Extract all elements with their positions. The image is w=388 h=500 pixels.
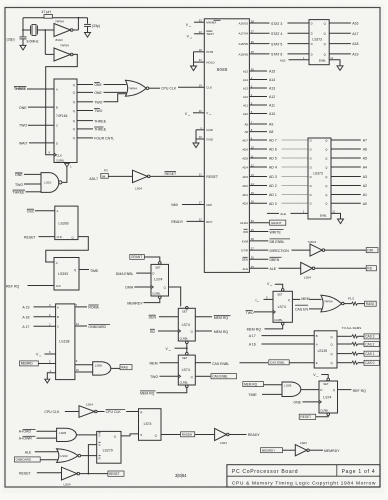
svg-text:THREE: THREE [94, 128, 107, 132]
svg-text:ADL7: ADL7 [89, 177, 98, 181]
flip-flop U12 LS74 [281, 289, 284, 292]
svg-text:AD 5: AD 5 [269, 157, 277, 161]
svg-text:CAS 1: CAS 1 [365, 352, 374, 356]
svg-text:ONE: ONE [293, 401, 301, 405]
inverter U1A 74F04 [54, 24, 71, 37]
svg-text:RASEN: RASEN [182, 433, 193, 437]
svg-text:A16: A16 [352, 22, 358, 26]
and-gate U16 LS09 [282, 382, 301, 397]
svg-text:TWO: TWO [94, 109, 102, 113]
svg-text:CPU CLK: CPU CLK [44, 410, 60, 414]
svg-text:74F64: 74F64 [128, 87, 137, 91]
svg-text:A6: A6 [363, 148, 367, 152]
svg-text:MEMRD: MEMRD [21, 362, 34, 366]
svg-text:SET: SET [277, 292, 283, 296]
svg-text:LS04: LS04 [86, 402, 93, 406]
wire RESET to CPU [150, 175, 204, 177]
svg-text:CLRBL: CLRBL [274, 318, 283, 322]
svg-text:LS139: LS139 [318, 349, 328, 353]
svg-text:GND: GND [206, 137, 214, 141]
svg-text:23: 23 [199, 30, 202, 34]
svg-text:D: D [310, 184, 312, 188]
svg-text:MEM RQ: MEM RQ [247, 328, 262, 332]
svg-text:LS02: LS02 [61, 454, 68, 458]
svg-text:A7: A7 [363, 139, 367, 143]
cpu U25 8088 [204, 19, 249, 273]
svg-text:READY: READY [171, 220, 184, 224]
wire clock to register [46, 54, 78, 154]
wire ALE to latch enable [267, 212, 279, 214]
inverter U17 LS04 [215, 428, 227, 440]
svg-text:A18/S5: A18/S5 [239, 42, 249, 46]
svg-text:Page 1 of 4: Page 1 of 4 [342, 469, 376, 475]
wire DIR output [325, 249, 366, 251]
svg-text:RD: RD [150, 330, 156, 334]
svg-text:TWO: TWO [150, 375, 158, 379]
svg-text:DB ENBL: DB ENBL [270, 240, 285, 244]
svg-text:15: 15 [76, 368, 79, 372]
node OSC mid [44, 29, 46, 31]
svg-text:74F04: 74F04 [60, 44, 69, 48]
svg-text:S: S [140, 433, 142, 437]
svg-text:P3: P3 [104, 169, 108, 173]
svg-text:C: C [57, 325, 59, 329]
flip-flop U9 LS74 [159, 262, 162, 265]
svg-text:ROMA: ROMA [88, 305, 99, 309]
svg-text:3|8|84: 3|8|84 [175, 473, 187, 478]
capacitor C2 33p [87, 18, 89, 24]
svg-text:LS04: LS04 [300, 441, 307, 445]
svg-text:A11: A11 [243, 103, 248, 107]
svg-text:MEM: MEM [301, 297, 309, 301]
svg-text:DEN: DEN [149, 316, 157, 320]
svg-text:A9: A9 [244, 122, 248, 126]
svg-text:DBEN: DBEN [270, 258, 280, 262]
svg-text:S: S [99, 443, 101, 447]
svg-text:DMA ENBL: DMA ENBL [116, 272, 134, 276]
svg-text:A: A [57, 305, 59, 309]
svg-text:CLRBL: CLRBL [180, 381, 189, 385]
wire CLR to RESET [327, 413, 330, 416]
svg-text:CAS 2: CAS 2 [365, 342, 374, 346]
svg-text:D: D [320, 388, 322, 392]
wire CPU CLK- to R [97, 411, 104, 413]
svg-text:ENBL: ENBL [320, 213, 328, 217]
svg-text:A11: A11 [269, 104, 275, 108]
svg-text:FOUR CNTL: FOUR CNTL [94, 137, 114, 141]
svg-text:GRANT: GRANT [131, 255, 142, 259]
svg-text:DIRECTION: DIRECTION [270, 249, 290, 253]
svg-text:A3: A3 [363, 175, 367, 179]
svg-text:AD 1: AD 1 [269, 193, 277, 197]
svg-text:CLRBL: CLRBL [56, 159, 65, 163]
inverter U19 LS04 [79, 406, 95, 418]
pin 31 HOLD grounded [194, 61, 205, 63]
svg-text:CPU CLK: CPU CLK [161, 87, 177, 91]
svg-text:D: D [310, 202, 312, 206]
svg-text:11: 11 [330, 56, 333, 60]
pin 1 GND [196, 129, 204, 131]
or-gate U3 74F64 [125, 80, 146, 96]
svg-text:LS04: LS04 [64, 482, 71, 486]
svg-text:ALE: ALE [270, 267, 277, 271]
wire CAS ENBL output [195, 362, 211, 364]
and-gate U20 LS08 [57, 428, 77, 441]
svg-text:D: D [56, 141, 58, 145]
svg-text:(33p): (33p) [7, 38, 15, 42]
svg-text:A: A [316, 343, 318, 347]
svg-text:A2: A2 [363, 184, 367, 188]
svg-text:P1.0: P1.0 [348, 297, 355, 301]
svg-text:ONBOARD: ONBOARD [16, 458, 32, 462]
svg-text:SET: SET [323, 382, 329, 386]
wire RASEN from Q [161, 434, 180, 436]
svg-text:ONE: ONE [94, 83, 102, 87]
svg-text:ALE: ALE [280, 59, 286, 63]
nand U4 LS10 [41, 173, 59, 193]
svg-text:LS393: LS393 [59, 222, 69, 226]
svg-text:D: D [152, 271, 154, 275]
wire MEMRD to G2A [20, 361, 39, 366]
svg-text:V: V [206, 111, 208, 115]
svg-text:THREE: THREE [14, 87, 27, 91]
svg-text:D: D [310, 165, 312, 169]
svg-text:8.0MHz: 8.0MHz [27, 39, 39, 43]
svg-text:33: 33 [199, 18, 202, 22]
svg-text:ALE: ALE [280, 212, 286, 216]
svg-text:A0: A0 [363, 202, 367, 206]
svg-text:DEN: DEN [242, 258, 248, 262]
node OSC-IN [22, 29, 24, 31]
ground [191, 66, 197, 71]
svg-text:LS74: LS74 [278, 305, 286, 309]
svg-text:THREE: THREE [94, 119, 107, 123]
svg-text:74F04: 74F04 [55, 20, 64, 24]
wire CLR to MEMRDY [159, 296, 162, 299]
svg-text:LS10: LS10 [44, 181, 51, 185]
ground [193, 143, 199, 148]
svg-text:STAT 4: STAT 4 [271, 32, 282, 36]
inverter U27 LS04 [301, 262, 313, 274]
svg-text:HLDA: HLDA [240, 221, 248, 225]
shift register U2 74F164 [54, 79, 77, 163]
svg-text:MEM RQ: MEM RQ [140, 392, 155, 396]
svg-text:A-IOWR: A-IOWR [19, 437, 32, 441]
svg-text:D: D [310, 156, 312, 160]
svg-text:PC CoProcessor Board: PC CoProcessor Board [232, 469, 298, 475]
svg-text:HOLD: HOLD [206, 61, 215, 65]
svg-text:19: 19 [199, 83, 202, 87]
svg-text:INTR: INTR [206, 50, 214, 54]
svg-text:GRANT: GRANT [271, 221, 282, 225]
svg-text:A8: A8 [269, 130, 273, 134]
svg-text:31: 31 [199, 58, 202, 62]
svg-text:MEM RQ: MEM RQ [214, 330, 229, 334]
svg-text:ONE: ONE [94, 91, 102, 95]
svg-text:AD6: AD6 [242, 147, 248, 151]
nor-gate U21 LS02 [57, 449, 78, 463]
svg-text:E: E [316, 361, 318, 365]
svg-text:AD 0: AD 0 [269, 202, 277, 206]
latch U29 LS373 [308, 138, 331, 219]
wire MEM RQ- output [195, 316, 212, 318]
svg-text:LS373: LS373 [313, 171, 323, 175]
wire to inverter B [44, 30, 46, 54]
inverter U18 LS04 [295, 445, 307, 456]
flip-flop U10 LS74 [186, 306, 189, 309]
svg-text:MEMRDY: MEMRDY [262, 448, 276, 452]
wire to D [301, 389, 319, 391]
wire RESET to S2 [88, 445, 96, 474]
wire ONBOARD input [14, 457, 40, 462]
wire CLR to MEM RQ [281, 322, 284, 325]
svg-text:LS74: LS74 [182, 323, 190, 327]
wire ONE to gate [104, 84, 127, 86]
svg-text:AD3: AD3 [242, 175, 248, 179]
svg-text:LS279: LS279 [103, 448, 113, 452]
svg-text:MEM RQ: MEM RQ [214, 316, 229, 320]
pin CLR 1 [65, 163, 70, 167]
svg-text:NMI: NMI [171, 203, 177, 207]
svg-text:AD 2: AD 2 [269, 184, 277, 188]
wire CPU CLK [149, 87, 160, 89]
svg-text:CAS EN: CAS EN [295, 307, 309, 311]
wire Q to S of LS74 [121, 434, 139, 436]
wire U1A output [73, 29, 78, 31]
svg-text:A: A [56, 87, 58, 91]
svg-text:RD: RD [367, 267, 372, 271]
svg-text:A 17: A 17 [249, 334, 256, 338]
svg-text:AD 7: AD 7 [269, 139, 277, 143]
svg-text:A 17: A 17 [22, 325, 29, 329]
svg-text:TIME: TIME [248, 393, 257, 397]
svg-text:84: 84 [102, 174, 106, 178]
nor-gate U13 74F64 [321, 295, 342, 312]
svg-text:WRITE: WRITE [270, 230, 282, 234]
wire G2B to ground [47, 373, 55, 379]
svg-text:A10: A10 [269, 112, 275, 116]
svg-text:47 µH: 47 µH [42, 10, 52, 14]
svg-text:A10: A10 [243, 112, 249, 116]
wire feedback top [23, 17, 44, 19]
inverter U5 LS04 [133, 170, 148, 182]
svg-text:D: D [310, 175, 312, 179]
svg-text:CLRBL: CLRBL [180, 337, 189, 341]
svg-text:LS09: LS09 [284, 384, 291, 388]
svg-text:LS04: LS04 [304, 276, 311, 280]
svg-text:18: 18 [199, 48, 202, 52]
svg-text:ENBL: ENBL [319, 59, 327, 63]
ground [85, 33, 91, 38]
svg-text:A17/S4: A17/S4 [239, 32, 249, 36]
svg-text:ONE: ONE [19, 106, 27, 110]
svg-text:ONE: ONE [15, 173, 23, 177]
wire RD output [315, 267, 366, 269]
wire RAS0 output [344, 303, 351, 305]
svg-text:A18: A18 [352, 42, 358, 46]
wire TWO to gate [104, 94, 127, 102]
svg-text:A19: A19 [352, 53, 358, 57]
svg-text:CPU CLK: CPU CLK [106, 410, 122, 414]
crystal Y1 8.0MHz [23, 29, 31, 31]
svg-text:B: B [56, 106, 58, 110]
svg-text:NMI: NMI [206, 203, 212, 207]
svg-text:AD 6: AD 6 [269, 148, 277, 152]
svg-text:TEST: TEST [206, 32, 214, 36]
svg-text:AD 3: AD 3 [269, 175, 277, 179]
svg-text:D: D [311, 52, 313, 56]
capacitor C1 33p [22, 30, 24, 36]
wire to R [81, 455, 97, 457]
latch U28 LS373 [309, 20, 329, 65]
svg-text:REF RQ: REF RQ [6, 284, 20, 288]
svg-text:40: 40 [199, 109, 202, 113]
svg-text:CAS 3: CAS 3 [365, 335, 374, 339]
ground [20, 45, 26, 50]
svg-text:CAS ENBL: CAS ENBL [212, 362, 229, 366]
svg-text:TIME: TIME [90, 269, 99, 273]
wire MEM RQ input [243, 382, 264, 387]
svg-text:READY: READY [248, 433, 261, 437]
svg-text:THREE: THREE [13, 191, 26, 195]
decoder U7 LS138 [56, 304, 75, 380]
flip-flop U15 LS74 [327, 378, 330, 381]
ground [45, 379, 50, 383]
svg-text:S: S [99, 434, 101, 438]
svg-text:C: C [56, 124, 58, 128]
svg-text:MEM RQ: MEM RQ [244, 382, 258, 386]
and-gate U8 LS08 [93, 362, 111, 375]
svg-text:CAS ENBL: CAS ENBL [270, 361, 285, 365]
inductor L1 47uH [44, 15, 53, 19]
counter U6B LS393 [54, 258, 79, 291]
svg-text:74F164: 74F164 [56, 114, 68, 118]
svg-text:17: 17 [199, 201, 202, 205]
svg-text:WAIT: WAIT [19, 141, 28, 145]
svg-text:CAS ENBL: CAS ENBL [212, 375, 228, 379]
wire RESET out [80, 473, 108, 475]
svg-text:B: B [57, 315, 59, 319]
svg-text:CPU & Memory Timing Logic C: CPU & Memory Timing Logic Copyright 1984… [232, 480, 376, 486]
svg-text:ONBOARD: ONBOARD [88, 325, 106, 329]
svg-text:A17: A17 [352, 32, 358, 36]
svg-text:D: D [310, 138, 312, 142]
svg-text:AD1: AD1 [242, 193, 248, 197]
svg-text:MEMRDY: MEMRDY [127, 301, 143, 305]
svg-text:RESET: RESET [19, 472, 32, 476]
svg-text:WR: WR [243, 230, 248, 234]
svg-text:STAT 5: STAT 5 [271, 42, 282, 46]
ground [337, 66, 343, 71]
wire ONE to gate [104, 91, 127, 93]
svg-text:LS04: LS04 [220, 441, 227, 445]
inverter U1B 74F04 [45, 53, 54, 55]
svg-text:SET: SET [155, 266, 161, 270]
svg-text:TO ALL RAMS: TO ALL RAMS [342, 326, 362, 330]
svg-text:D: D [310, 193, 312, 197]
svg-text:LS08: LS08 [59, 431, 66, 435]
svg-text:A: A [57, 209, 59, 213]
svg-text:A 19: A 19 [22, 305, 29, 309]
svg-text:CLRBL: CLRBL [152, 292, 161, 296]
svg-text:A4: A4 [363, 166, 367, 170]
wire Vcc to set [275, 284, 283, 288]
svg-text:CLK: CLK [56, 284, 61, 288]
svg-text:MEMRDY: MEMRDY [324, 449, 340, 453]
flip-flop U24 LS74 [139, 409, 162, 441]
svg-text:STAT 6: STAT 6 [271, 53, 282, 57]
svg-text:74F04: 74F04 [308, 240, 317, 244]
svg-text:A15: A15 [269, 70, 275, 74]
svg-text:LS74: LS74 [154, 278, 162, 282]
svg-text:MN/MX: MN/MX [206, 21, 216, 25]
wire CLR from NAND [63, 167, 67, 183]
svg-text:A1: A1 [363, 193, 367, 197]
svg-text:SET: SET [182, 356, 188, 360]
svg-text:RESET: RESET [24, 235, 37, 239]
svg-text:22: 22 [199, 218, 202, 222]
counter U6A LS393 [55, 206, 78, 240]
svg-text:CAS 0: CAS 0 [365, 361, 374, 365]
svg-text:ALE: ALE [243, 267, 249, 271]
svg-text:A15: A15 [243, 69, 249, 73]
svg-text:CLRBL: CLRBL [320, 409, 329, 413]
svg-text:TWO: TWO [15, 183, 23, 187]
inverter U23 LS04 [62, 467, 78, 480]
svg-text:AD7: AD7 [242, 138, 248, 142]
svg-text:CLK: CLK [57, 153, 63, 157]
svg-text:RESET: RESET [206, 175, 219, 179]
svg-text:RAS0: RAS0 [366, 302, 375, 306]
svg-text:OSC: OSC [27, 209, 35, 213]
svg-text:D: D [311, 42, 313, 46]
pin 18 INTR grounded [194, 51, 205, 53]
wire CLR Vcc junction [186, 341, 189, 344]
pin 20 GND [196, 138, 204, 140]
svg-text:A13: A13 [243, 86, 249, 90]
svg-text:IO/M: IO/M [242, 239, 249, 243]
title block [227, 465, 380, 487]
svg-text:AD4: AD4 [242, 165, 248, 169]
svg-text:RESET: RESET [109, 472, 120, 476]
svg-text:84LD: 84LD [56, 38, 64, 42]
ground [338, 219, 344, 224]
svg-text:AD2: AD2 [242, 184, 248, 188]
svg-text:A5: A5 [363, 157, 367, 161]
wire GRANT to set [130, 254, 145, 259]
svg-text:LS74: LS74 [182, 368, 190, 372]
svg-text:A12: A12 [269, 95, 275, 99]
svg-text:TWO: TWO [246, 311, 254, 315]
svg-text:LS393: LS393 [58, 272, 68, 276]
svg-text:CLK: CLK [206, 86, 212, 90]
wire RAS output [111, 367, 120, 369]
svg-text:A: A [56, 261, 58, 265]
wire Vcc to set [321, 375, 328, 379]
svg-text:MEM: MEM [150, 362, 158, 366]
wire NAND out to CLR [61, 181, 64, 183]
inverter U26 74F04 [310, 244, 322, 256]
svg-text:RDY: RDY [206, 220, 212, 224]
svg-text:A13: A13 [269, 87, 275, 91]
svg-text:AD0: AD0 [242, 202, 248, 206]
svg-text:A 18: A 18 [22, 315, 29, 319]
svg-text:ALE: ALE [25, 450, 32, 454]
svg-text:DT/R: DT/R [241, 249, 248, 253]
wire READY output [229, 434, 246, 436]
latch U22 LS279 [97, 431, 121, 463]
svg-text:SET: SET [182, 309, 188, 313]
